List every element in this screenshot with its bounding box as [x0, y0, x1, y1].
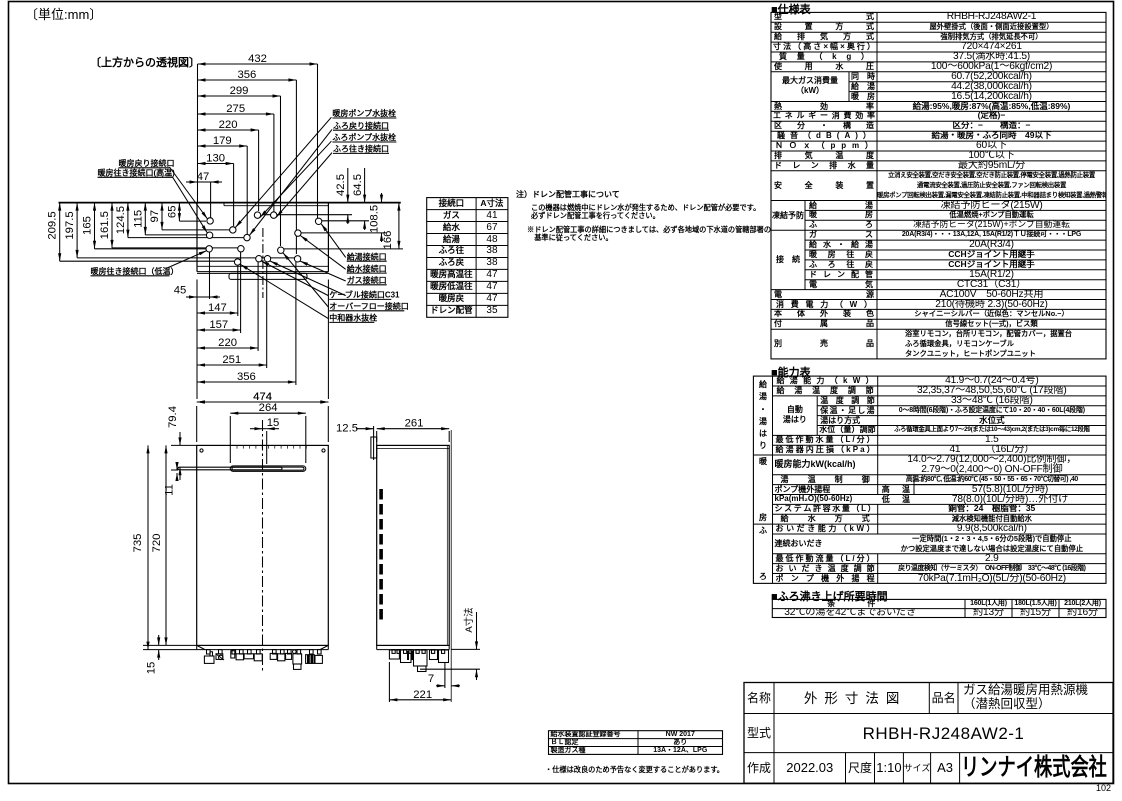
top view body outline	[196, 203, 198, 272]
dim 197.5 (top view left)	[76, 203, 78, 258]
extension lines (right dims)	[262, 214, 352, 216]
dim 147 (top view bottom)	[197, 312, 238, 314]
page number 102	[1096, 783, 1111, 793]
dim 179 (top view top)	[198, 145, 248, 147]
dim 261 (side)	[377, 428, 450, 430]
header ふろ沸き上げ所要時間	[771, 588, 888, 604]
dim 15 (front bottom)	[158, 635, 160, 645]
port circle ふろ往き接続口	[271, 212, 277, 218]
dim 221 (side)	[389, 699, 451, 701]
port circle 給水接続口	[295, 230, 301, 236]
title block grid	[744, 683, 1113, 784]
side view body	[377, 445, 450, 645]
title block row3	[744, 753, 774, 784]
bath time table grid	[772, 599, 1106, 617]
dim 356 (top view bottom)	[197, 381, 296, 383]
wall bracket slot	[230, 466, 305, 471]
dim 124.5 (top view left)	[127, 203, 129, 238]
spec table grid	[771, 12, 1106, 359]
port circle 中和器水抜栓	[234, 259, 240, 265]
extension lines (left dims)	[60, 260, 234, 262]
port circle 暖房往き接続口(低温)	[206, 246, 212, 252]
dim 474 (front)	[197, 401, 329, 403]
dim 7 (side)	[436, 685, 445, 687]
dim 108.5 (top view right)	[381, 193, 383, 203]
capacity table grid	[753, 376, 1106, 583]
dim 220 (top view bottom)	[197, 347, 258, 349]
dim 97 (top view left)	[161, 203, 163, 230]
dim 64.5 (top view right)	[364, 168, 366, 203]
second cable leader	[270, 261, 346, 296]
note drain piping	[516, 191, 620, 200]
extension lines (top dims)	[317, 64, 319, 218]
title block row2 型式	[744, 714, 774, 753]
port circle ふろ戻り接続口	[244, 234, 250, 240]
side view louver slots	[379, 489, 383, 500]
dim 166 (top view right)	[398, 203, 400, 249]
port circle 給湯接続口	[315, 218, 321, 224]
port circle ケーブル接続口C31(2)	[264, 256, 270, 262]
certification table grid	[549, 731, 723, 755]
bracket bar	[178, 467, 282, 470]
dim 165 (top view left)	[94, 203, 96, 249]
connection A-dim table grid	[427, 198, 508, 318]
front view top ticks	[236, 445, 238, 448]
dim 220 (top view top)	[198, 129, 259, 131]
dim 12.5 (side)	[356, 428, 374, 430]
dim A寸法 (side)	[476, 612, 478, 649]
dim 161.5 (top view left)	[111, 203, 113, 248]
port circle 暖房ポンプ水抜栓	[230, 227, 236, 233]
dim 432 (top view top)	[198, 63, 318, 65]
dim 42.5 (top view right)	[347, 168, 349, 203]
dim 275 (top view top)	[198, 113, 274, 115]
front view bottom fittings	[204, 656, 214, 663]
dim 115 (top view left)	[144, 203, 146, 235]
port circle ガス接続口	[294, 256, 300, 262]
top view: top edge reference line	[59, 202, 401, 204]
header 能力表	[771, 364, 811, 380]
dim 474 (top view bottom)	[197, 401, 328, 403]
dim 356 (top view top)	[198, 79, 297, 81]
port circle 暖房戻り接続口	[207, 218, 213, 224]
port circle 暖房往き接続口(高温)	[206, 232, 212, 238]
dim 11 (front)	[176, 462, 178, 470]
side view bottom fittings	[389, 650, 399, 659]
text 上方からの透視図	[90, 54, 200, 70]
dim 299 (top view top)	[198, 95, 281, 97]
side view bottom fitting nipples	[392, 650, 395, 654]
port circle ケーブル接続口C31	[256, 256, 262, 262]
text 単位mm	[25, 4, 102, 23]
header 仕様表	[771, 1, 811, 17]
dim 264 (front)	[230, 412, 305, 414]
port circle オーバーフロー接続口	[278, 247, 284, 253]
dim 157 (top view bottom)	[197, 329, 241, 331]
dim 79.4 (front)	[179, 432, 181, 445]
front view center line	[262, 420, 264, 673]
disclaimer note	[545, 765, 724, 775]
extension lines (bottom dims)	[209, 252, 211, 299]
title block row1	[744, 683, 774, 714]
dim 251 (top view bottom)	[197, 364, 267, 366]
dim 720 (front)	[165, 445, 167, 645]
port circle ふろポンプ水抜栓	[254, 212, 260, 218]
dim 65 (top view left)	[178, 203, 180, 222]
dim 47 (top view top)	[186, 181, 198, 183]
dim 15 (front)	[263, 428, 267, 430]
dim 735 (front)	[147, 445, 149, 649]
side view wall bracket	[373, 426, 375, 460]
port circle 暖房戻	[238, 246, 244, 252]
top view bottom lip	[229, 273, 307, 279]
dim 209.5 (top view left)	[59, 203, 61, 262]
front view bottom fitting nipples	[207, 650, 211, 654]
dim 130 (top view top)	[198, 163, 234, 165]
front view body	[197, 445, 329, 645]
dim 45 (top view bottom)	[197, 296, 210, 298]
front view top screws	[200, 449, 203, 452]
top view center line	[262, 228, 264, 298]
